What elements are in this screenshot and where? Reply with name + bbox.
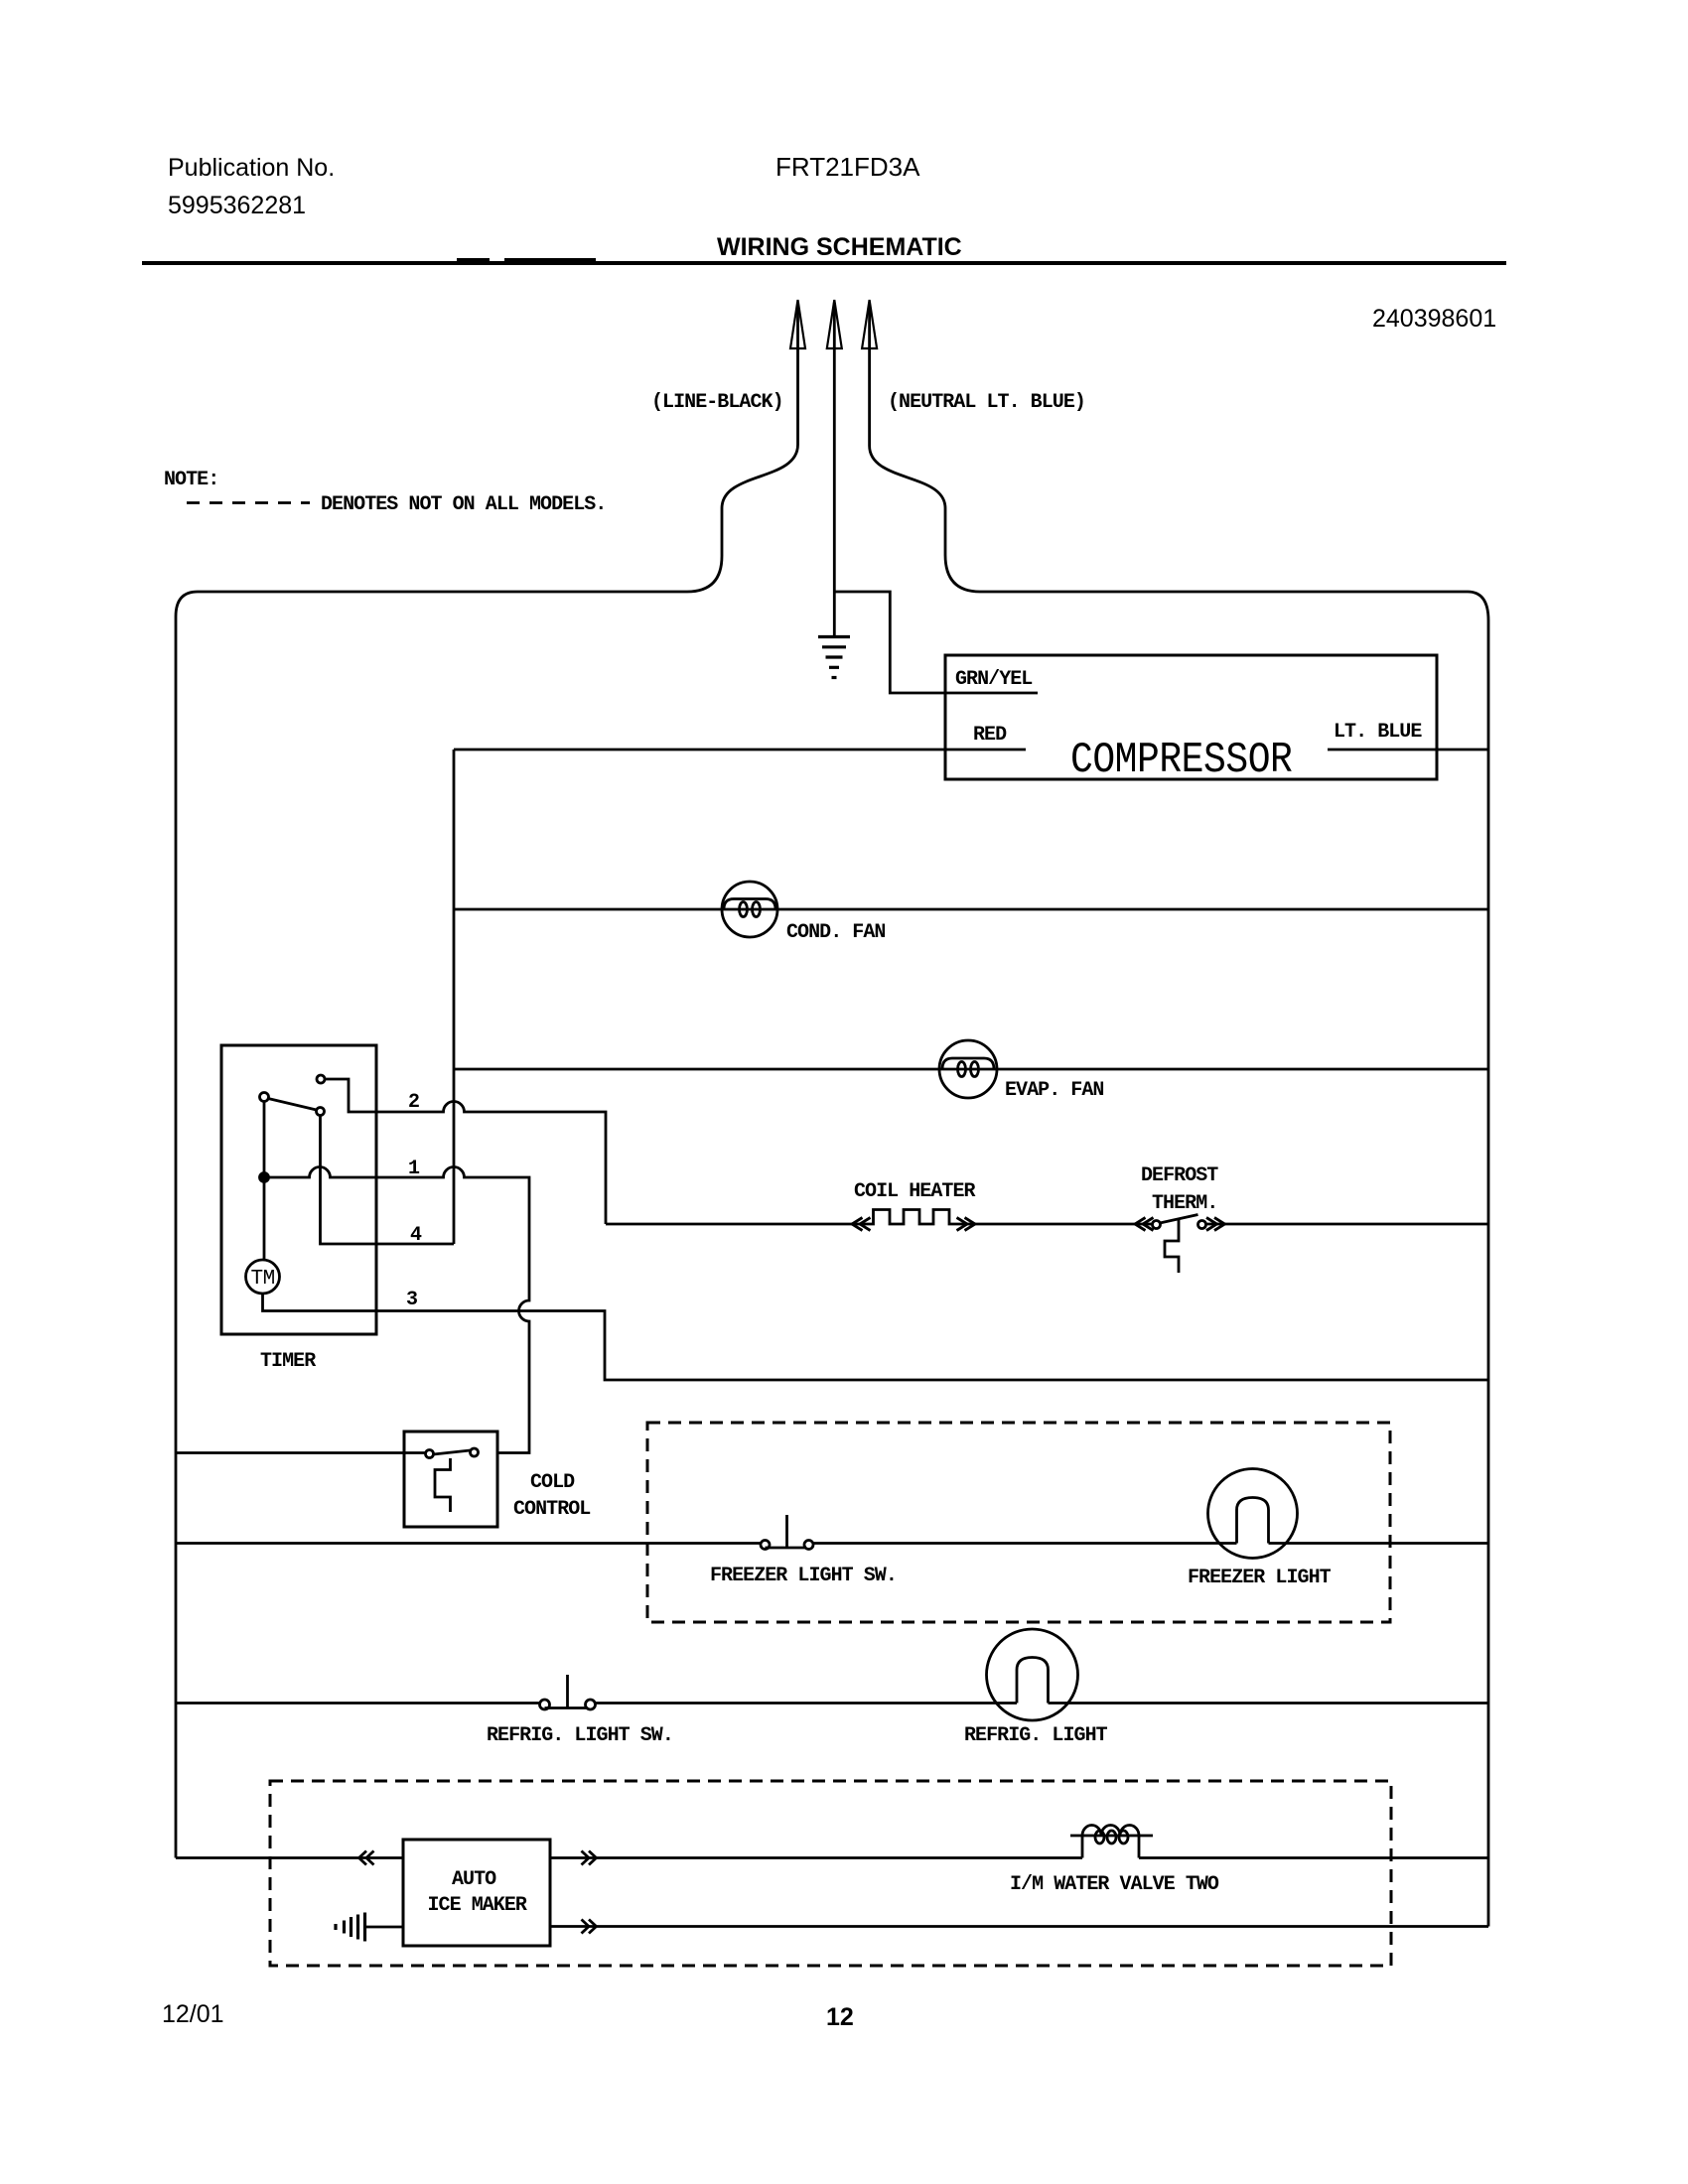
timer contact B bbox=[260, 1093, 269, 1102]
wire grn/yel jumper bbox=[834, 592, 1038, 693]
wire heater to defrost therm bbox=[954, 1223, 1153, 1226]
wire ice maker return bbox=[550, 1925, 1488, 1928]
timer switch blade bbox=[268, 1099, 317, 1111]
svg-text:4: 4 bbox=[410, 1224, 422, 1247]
title rule bbox=[142, 261, 1506, 265]
svg-text:2: 2 bbox=[408, 1091, 419, 1114]
wire lt-blue lead bbox=[1328, 749, 1488, 751]
wire evap fan line bbox=[454, 1068, 1488, 1071]
wire main bus bbox=[453, 750, 456, 1244]
wire timer terminal 1 bbox=[269, 1167, 530, 1453]
wire line-black lead bbox=[687, 303, 798, 592]
wire freezer light line right bbox=[813, 1542, 1488, 1545]
svg-text:240398601: 240398601 bbox=[1372, 305, 1496, 333]
wire red lead bbox=[454, 749, 1026, 751]
label COLD CONTROL bbox=[513, 1471, 590, 1521]
freezer section dashed box bbox=[647, 1423, 1390, 1622]
wire dot to TM bbox=[263, 1182, 266, 1261]
svg-text:COMPRESSOR: COMPRESSOR bbox=[1070, 737, 1292, 785]
connector chevrons ice maker out lower bbox=[582, 1920, 597, 1934]
svg-text:LT. BLUE: LT. BLUE bbox=[1334, 721, 1422, 744]
svg-text:THERM.: THERM. bbox=[1152, 1192, 1217, 1215]
arrowhead line-black bbox=[790, 300, 805, 348]
svg-text:COND. FAN: COND. FAN bbox=[786, 921, 885, 944]
connector chevrons heater left bbox=[852, 1218, 871, 1231]
cold control switch bbox=[426, 1448, 479, 1512]
svg-text:3: 3 bbox=[406, 1289, 417, 1311]
compressor box U1 bbox=[945, 655, 1437, 779]
wire refrig light line right bbox=[596, 1702, 1489, 1705]
freezer light switch bbox=[761, 1515, 813, 1550]
connector chevrons heater right bbox=[957, 1218, 976, 1231]
arrowhead ground lead bbox=[827, 300, 842, 348]
svg-text:12: 12 bbox=[826, 2003, 854, 2031]
cold control box bbox=[404, 1432, 497, 1527]
svg-text:5995362281: 5995362281 bbox=[168, 192, 306, 219]
ice maker ground bbox=[336, 1913, 403, 1942]
defrost thermostat bbox=[1153, 1215, 1206, 1274]
wire freezer light line left bbox=[176, 1542, 761, 1545]
svg-text:AUTO: AUTO bbox=[452, 1868, 496, 1891]
svg-text:ICE MAKER: ICE MAKER bbox=[428, 1894, 527, 1917]
junction dot bbox=[260, 1173, 269, 1182]
svg-text:1: 1 bbox=[408, 1158, 420, 1180]
svg-text:GRN/YEL: GRN/YEL bbox=[955, 668, 1032, 691]
svg-text:FREEZER LIGHT: FREEZER LIGHT bbox=[1188, 1567, 1332, 1589]
svg-text:WIRING SCHEMATIC: WIRING SCHEMATIC bbox=[717, 233, 962, 261]
label AUTO ICE MAKER bbox=[428, 1868, 527, 1917]
auto ice maker box bbox=[403, 1840, 550, 1946]
wire timer B down bbox=[263, 1102, 266, 1173]
svg-text:TIMER: TIMER bbox=[260, 1350, 316, 1373]
svg-text:COLD: COLD bbox=[530, 1471, 575, 1494]
svg-text:TM: TM bbox=[251, 1268, 275, 1291]
wire cold control feed bbox=[176, 1451, 425, 1454]
svg-text:(LINE-BLACK): (LINE-BLACK) bbox=[651, 391, 783, 414]
motor evap fan bbox=[939, 1040, 997, 1098]
svg-text:12/01: 12/01 bbox=[162, 2000, 224, 2028]
wire refrig light line left bbox=[176, 1702, 540, 1705]
wire timer terminal 4 bbox=[321, 1116, 455, 1245]
wire ground lead bbox=[833, 303, 836, 636]
header publication number bbox=[168, 154, 335, 219]
timer contact A bbox=[317, 1075, 325, 1083]
water valve coil L1 bbox=[1070, 1826, 1153, 1858]
svg-text:NOTE:: NOTE: bbox=[164, 469, 218, 491]
refrig light switch bbox=[540, 1675, 596, 1709]
svg-text:(NEUTRAL LT. BLUE): (NEUTRAL LT. BLUE) bbox=[888, 391, 1085, 414]
svg-text:FREEZER LIGHT SW.: FREEZER LIGHT SW. bbox=[710, 1565, 897, 1587]
wire water valve to right edge bbox=[1139, 1856, 1488, 1859]
refrig light bulb bbox=[987, 1629, 1078, 1720]
timer box bbox=[221, 1045, 376, 1334]
timer contact C bbox=[317, 1108, 325, 1116]
wire neutral lead bbox=[870, 303, 980, 592]
connector chevrons ice maker out upper bbox=[582, 1851, 597, 1865]
svg-text:Publication No.: Publication No. bbox=[168, 154, 335, 182]
wire ice maker out upper bbox=[550, 1856, 1082, 1859]
wire timer terminal 3 bbox=[263, 1294, 1489, 1380]
svg-text:RED: RED bbox=[973, 724, 1007, 747]
svg-text:COIL HEATER: COIL HEATER bbox=[854, 1180, 976, 1203]
wire cond fan line bbox=[454, 908, 1488, 911]
heater coil element bbox=[870, 1210, 954, 1225]
wire ice maker feed bbox=[176, 1856, 403, 1859]
ice maker section dashed box bbox=[270, 1781, 1391, 1966]
note dashed line bbox=[187, 501, 310, 504]
arrowhead neutral bbox=[862, 300, 877, 348]
freezer light bulb bbox=[1208, 1469, 1298, 1559]
svg-text:DEFROST: DEFROST bbox=[1141, 1164, 1218, 1187]
motor cond fan bbox=[722, 882, 777, 937]
connector chevrons defrost left bbox=[1135, 1218, 1154, 1231]
svg-text:REFRIG. LIGHT: REFRIG. LIGHT bbox=[964, 1724, 1108, 1747]
label DEFROST THERM. bbox=[1141, 1164, 1218, 1215]
svg-text:CONTROL: CONTROL bbox=[513, 1498, 590, 1521]
wire timer terminal 2 bbox=[325, 1079, 606, 1224]
ground symbol bbox=[818, 637, 850, 678]
wire outer box right outline bbox=[980, 592, 1488, 1927]
svg-text:REFRIG. LIGHT SW.: REFRIG. LIGHT SW. bbox=[487, 1724, 673, 1747]
svg-text:DENOTES NOT ON ALL MODELS.: DENOTES NOT ON ALL MODELS. bbox=[321, 493, 606, 516]
connector chevrons defrost right bbox=[1206, 1218, 1225, 1231]
connector chevrons ice maker in bbox=[359, 1851, 374, 1865]
svg-text:FRT21FD3A: FRT21FD3A bbox=[775, 152, 920, 182]
wire defrost to right edge bbox=[1206, 1223, 1489, 1226]
timer motor TM bbox=[246, 1260, 280, 1294]
wire defrost heater line bbox=[606, 1223, 870, 1226]
svg-text:EVAP. FAN: EVAP. FAN bbox=[1005, 1079, 1103, 1102]
svg-text:I/M WATER VALVE TWO: I/M WATER VALVE TWO bbox=[1010, 1873, 1219, 1896]
wire outer box left outline bbox=[176, 592, 687, 1858]
